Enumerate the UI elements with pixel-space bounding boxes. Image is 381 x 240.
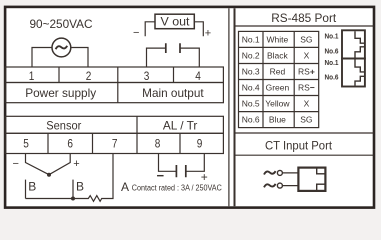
panel divider thin xyxy=(228,8,230,206)
wire capacitor terminals 3-4 xyxy=(147,48,200,67)
svg-text:−: − xyxy=(157,168,165,183)
RS-485 table grid xyxy=(239,31,319,127)
svg-text:Blue: Blue xyxy=(269,115,286,125)
svg-text:X: X xyxy=(304,51,310,61)
svg-text:+: + xyxy=(205,28,211,40)
CT section separator xyxy=(235,132,374,134)
svg-text:Sensor: Sensor xyxy=(46,119,81,133)
svg-text:RS-485 Port: RS-485 Port xyxy=(271,11,337,25)
svg-text:8: 8 xyxy=(155,137,161,151)
svg-text:−: − xyxy=(133,27,139,39)
RJ jack top xyxy=(342,30,365,58)
RJ jack bottom xyxy=(342,59,365,87)
svg-text:B: B xyxy=(76,179,84,193)
terminal row 5-9 xyxy=(5,133,223,153)
AC tilde xyxy=(56,46,68,49)
svg-text:Main output: Main output xyxy=(142,86,204,100)
svg-text:+: + xyxy=(73,158,79,170)
svg-text:V out: V out xyxy=(161,17,191,29)
svg-text:Green: Green xyxy=(266,83,290,93)
CT title underline xyxy=(235,154,374,156)
panel divider thick xyxy=(234,8,236,206)
wire bottom with resistor xyxy=(26,154,114,202)
svg-text:6: 6 xyxy=(67,137,73,151)
svg-text:Red: Red xyxy=(270,67,286,77)
svg-text:No.2: No.2 xyxy=(242,51,260,61)
CT lead tilde 2 xyxy=(264,184,276,187)
AC source circle xyxy=(52,38,71,57)
svg-text:9: 9 xyxy=(197,137,203,151)
svg-text:Power supply: Power supply xyxy=(25,86,96,100)
contact plates xyxy=(176,165,185,177)
node dot sensor xyxy=(47,173,51,177)
svg-text:No.6: No.6 xyxy=(242,115,260,125)
terminal row 1-4 xyxy=(5,67,223,83)
svg-text:RS−: RS− xyxy=(298,83,315,93)
svg-text:5: 5 xyxy=(23,137,29,151)
svg-text:No.1: No.1 xyxy=(325,60,339,67)
svg-text:SG: SG xyxy=(300,115,312,125)
wire sensor B lead 2 xyxy=(72,180,74,199)
header row Sensor / AL Tr xyxy=(5,116,223,133)
CT lead circle 1 xyxy=(277,170,282,175)
svg-text:No.1: No.1 xyxy=(242,34,260,44)
svg-text:RS+: RS+ xyxy=(298,67,315,77)
svg-text:+: + xyxy=(201,170,208,184)
wire AL contact terminals 8-9 xyxy=(159,154,205,172)
svg-text:No.4: No.4 xyxy=(242,83,260,93)
svg-text:−: − xyxy=(12,158,18,170)
svg-text:90~250VAC: 90~250VAC xyxy=(30,17,93,31)
labels row xyxy=(5,83,223,103)
RS-485 title underline xyxy=(235,25,374,27)
svg-text:No.6: No.6 xyxy=(325,49,339,56)
svg-text:4: 4 xyxy=(195,69,201,83)
wire CT leads xyxy=(282,173,298,186)
wire sensor V 2-wire xyxy=(26,154,71,175)
svg-text:7: 7 xyxy=(112,137,118,151)
CT lead tilde 1 xyxy=(264,171,276,174)
capacitor plates xyxy=(166,43,180,53)
svg-text:AL / Tr: AL / Tr xyxy=(163,119,198,133)
CT body xyxy=(298,168,325,191)
wire sensor B lead 1 xyxy=(25,180,27,199)
svg-text:3: 3 xyxy=(144,69,150,83)
wire AC loop xyxy=(32,48,88,68)
svg-text:Yellow: Yellow xyxy=(265,99,290,109)
svg-text:B: B xyxy=(28,179,36,193)
node dot B2 xyxy=(71,197,75,201)
svg-text:No.3: No.3 xyxy=(242,67,260,77)
svg-text:No.1: No.1 xyxy=(325,33,339,40)
svg-text:SG: SG xyxy=(300,34,312,44)
V out box xyxy=(155,14,194,29)
svg-text:No.6: No.6 xyxy=(325,74,339,81)
svg-text:CT Input Port: CT Input Port xyxy=(265,138,333,152)
svg-text:X: X xyxy=(304,99,310,109)
svg-text:1: 1 xyxy=(29,69,35,83)
svg-text:A: A xyxy=(121,180,129,194)
wire V out leads xyxy=(145,22,203,37)
CT lead circle 2 xyxy=(277,183,282,188)
svg-text:White: White xyxy=(267,34,289,44)
svg-text:Contact rated : 3A / 250VAC: Contact rated : 3A / 250VAC xyxy=(132,183,222,192)
svg-text:Black: Black xyxy=(267,51,289,61)
svg-text:No.5: No.5 xyxy=(242,99,260,109)
svg-text:2: 2 xyxy=(86,69,92,83)
